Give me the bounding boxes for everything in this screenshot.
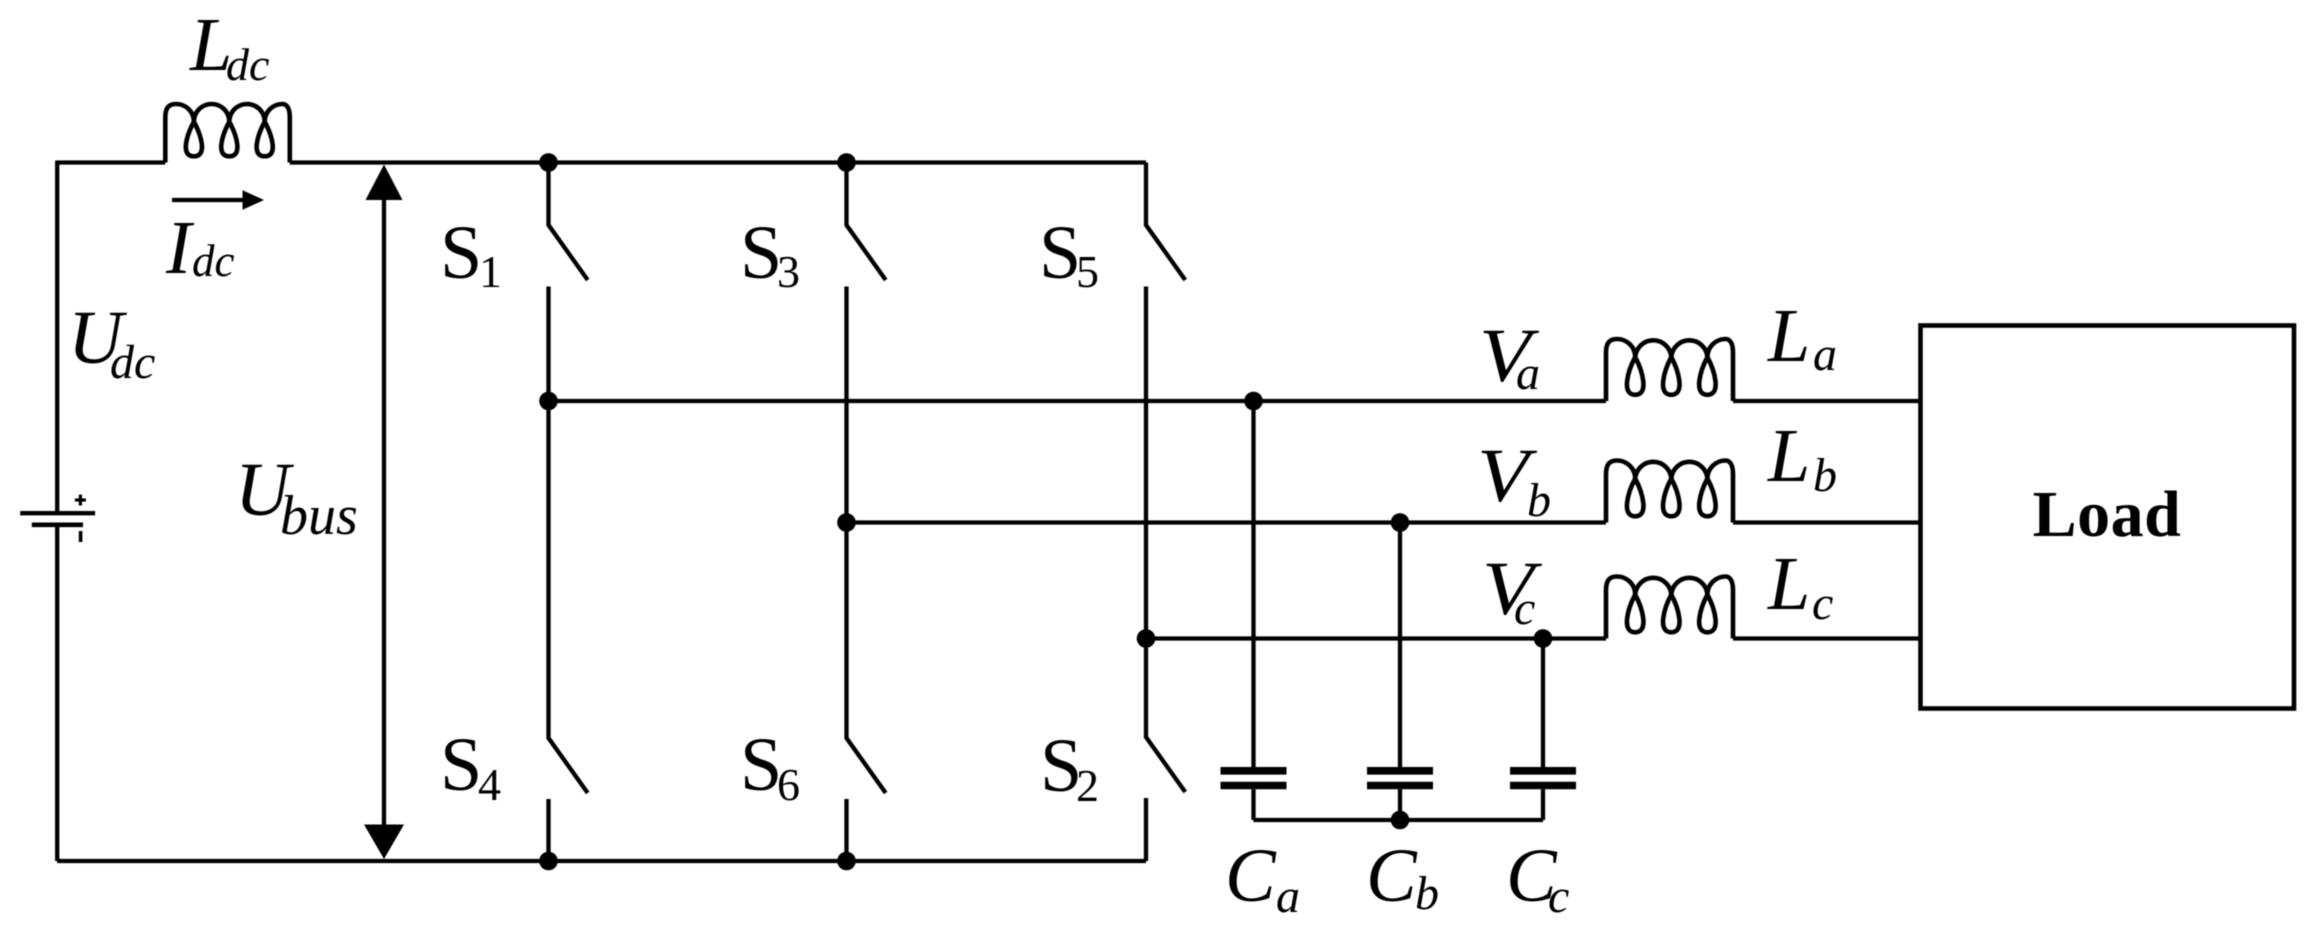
svg-text:2: 2 bbox=[1076, 760, 1099, 811]
svg-text:4: 4 bbox=[478, 759, 501, 810]
svg-text:3: 3 bbox=[777, 246, 800, 297]
svg-text:6: 6 bbox=[777, 759, 800, 810]
svg-text:c: c bbox=[1548, 870, 1569, 923]
svg-text:L: L bbox=[1767, 294, 1810, 378]
svg-text:S: S bbox=[440, 723, 482, 807]
svg-text:c: c bbox=[1812, 577, 1833, 630]
svg-text:Load: Load bbox=[2033, 478, 2182, 551]
svg-text:b: b bbox=[1813, 449, 1837, 502]
svg-text:bus: bus bbox=[280, 485, 358, 547]
svg-text:b: b bbox=[1527, 474, 1551, 527]
svg-text:dc: dc bbox=[226, 39, 269, 90]
svg-text:L: L bbox=[1767, 414, 1810, 498]
svg-text:C: C bbox=[1225, 834, 1277, 918]
svg-text:C: C bbox=[1366, 834, 1418, 918]
svg-text:b: b bbox=[1415, 867, 1439, 920]
svg-text:dc: dc bbox=[110, 336, 155, 389]
svg-text:I: I bbox=[165, 206, 195, 290]
svg-text:dc: dc bbox=[192, 236, 235, 286]
svg-text:S: S bbox=[740, 211, 782, 295]
svg-text:1: 1 bbox=[479, 246, 502, 297]
svg-text:S: S bbox=[1039, 211, 1081, 295]
svg-text:5: 5 bbox=[1076, 246, 1099, 297]
svg-text:S: S bbox=[740, 723, 782, 807]
svg-text:a: a bbox=[1813, 328, 1837, 381]
svg-text:a: a bbox=[1516, 347, 1540, 400]
svg-text:S: S bbox=[440, 211, 482, 295]
svg-text:L: L bbox=[1767, 542, 1810, 626]
svg-text:c: c bbox=[1514, 582, 1535, 635]
svg-text:a: a bbox=[1276, 870, 1300, 923]
